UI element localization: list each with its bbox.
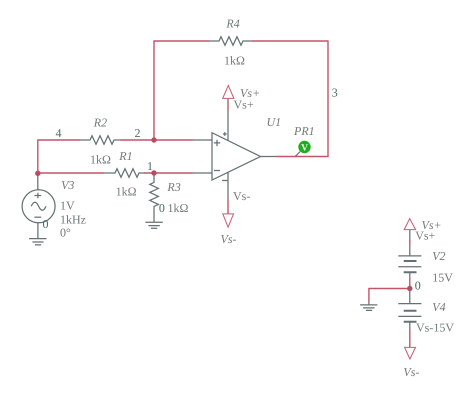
battery V4 plates bbox=[398, 304, 421, 317]
svg-text:PR1: PR1 bbox=[293, 124, 315, 138]
svg-text:15V: 15V bbox=[432, 271, 453, 285]
op-amp plus input marker bbox=[214, 140, 220, 146]
svg-text:Vs+: Vs+ bbox=[415, 228, 435, 242]
op-amp Vs- pin stub bbox=[227, 172, 229, 200]
op-amp Vs+ plus marker bbox=[223, 132, 227, 136]
svg-text:R3: R3 bbox=[166, 180, 180, 194]
svg-text:U1: U1 bbox=[267, 115, 282, 129]
svg-text:V4: V4 bbox=[432, 300, 445, 314]
resistor R3 bbox=[150, 174, 159, 223]
svg-text:1kHz: 1kHz bbox=[60, 212, 86, 226]
svg-text:1kΩ: 1kΩ bbox=[224, 53, 245, 67]
battery V4 top stub bbox=[409, 291, 411, 304]
wire node4 to R2 bbox=[38, 139, 80, 141]
power arrow Vs- right bbox=[405, 347, 416, 359]
svg-text:0: 0 bbox=[43, 217, 49, 231]
power arrow Vs- op-amp bbox=[223, 214, 234, 227]
wire R2 to op-amp plus input bbox=[120, 139, 193, 141]
wire op-amp Vs- red segment bbox=[227, 200, 229, 214]
power arrow Vs+ stub bbox=[409, 230, 411, 239]
wire node2 up to feedback loop bbox=[153, 41, 155, 140]
ground under V3 bbox=[29, 239, 46, 245]
wire left vertical node4 to node V3 bbox=[37, 139, 39, 173]
svg-text:R2: R2 bbox=[93, 115, 107, 129]
svg-text:Vs+: Vs+ bbox=[234, 98, 254, 112]
op-amp U1 input stub plus bbox=[193, 139, 213, 141]
wire Vs+ arrow to V2 bbox=[409, 239, 411, 246]
wire node 0 to ground branch bbox=[369, 288, 410, 290]
probe PR1 body bbox=[298, 141, 310, 153]
svg-text:1kΩ: 1kΩ bbox=[168, 201, 189, 215]
svg-text:R4: R4 bbox=[225, 17, 239, 31]
ground under R3 bbox=[145, 222, 162, 228]
V3 minus sign bbox=[34, 216, 41, 218]
ground right bbox=[360, 305, 377, 311]
svg-text:1V: 1V bbox=[60, 199, 75, 213]
op-amp Vs- minus marker bbox=[222, 180, 227, 182]
node dot 0 right bbox=[407, 286, 412, 291]
svg-text:0°: 0° bbox=[60, 225, 71, 239]
svg-text:1kΩ: 1kΩ bbox=[90, 153, 111, 167]
svg-text:4: 4 bbox=[56, 126, 62, 140]
op-amp U1 input stub minus bbox=[193, 172, 213, 174]
V3 plus sign bbox=[35, 193, 42, 199]
wire R4 to right corner bbox=[252, 40, 328, 42]
V3 bottom stub bbox=[37, 223, 39, 239]
wire op-amp output bbox=[276, 156, 329, 158]
resistor R2 bbox=[80, 136, 120, 145]
wire op-amp Vs+ red segment bbox=[227, 102, 229, 111]
svg-text:Vs-15V: Vs-15V bbox=[416, 321, 454, 335]
probe PR1 leader bbox=[295, 152, 300, 157]
op-amp U1 triangle bbox=[212, 133, 261, 180]
op-amp minus input marker bbox=[214, 170, 220, 172]
wire right vertical node 3 bbox=[327, 40, 329, 156]
source V3 pin stub top bbox=[37, 173, 39, 190]
power arrow Vs+ right bbox=[404, 219, 415, 230]
wire top left to R4 bbox=[153, 40, 209, 42]
wire R1 to node 1 to op-amp minus input bbox=[144, 172, 193, 174]
op-amp Vs+ arrow stub bbox=[227, 99, 229, 102]
svg-text:0: 0 bbox=[159, 201, 165, 215]
svg-text:1kΩ: 1kΩ bbox=[116, 185, 137, 199]
svg-text:Vs-: Vs- bbox=[221, 232, 237, 246]
battery V2 bottom stub bbox=[409, 272, 411, 277]
svg-text:Vs-: Vs- bbox=[233, 189, 250, 203]
svg-text:1: 1 bbox=[147, 159, 153, 173]
wire V2 bottom to node 0 bbox=[409, 277, 411, 288]
battery V2 top stub bbox=[409, 246, 411, 256]
node dot left junction bbox=[35, 171, 40, 176]
V3 sine symbol bbox=[31, 202, 46, 210]
node dot 1 bbox=[151, 170, 156, 175]
battery V2 plates bbox=[398, 256, 421, 267]
op-amp output stub bbox=[261, 156, 276, 158]
svg-text:V: V bbox=[301, 143, 308, 153]
ground stub right bbox=[368, 302, 370, 305]
svg-text:V3: V3 bbox=[61, 178, 74, 192]
op-amp Vs+ pin stub bbox=[227, 111, 229, 141]
battery V4 bottom stub bbox=[409, 322, 411, 330]
svg-text:Vs-: Vs- bbox=[403, 365, 419, 379]
svg-text:0: 0 bbox=[415, 279, 421, 293]
resistor R1 bbox=[104, 169, 145, 178]
node dot 2 bbox=[151, 137, 156, 142]
wire V4 to Vs- arrow bbox=[409, 330, 411, 348]
wire ground branch vertical bbox=[368, 288, 370, 302]
svg-text:V2: V2 bbox=[432, 249, 445, 263]
resistor R4 bbox=[209, 37, 252, 46]
svg-text:R1: R1 bbox=[118, 149, 132, 163]
power arrow Vs+ op-amp bbox=[223, 85, 234, 98]
source V3 circle bbox=[22, 190, 55, 223]
svg-text:2: 2 bbox=[135, 126, 141, 140]
svg-text:3: 3 bbox=[332, 85, 338, 99]
wire node 0 to V4 bbox=[409, 289, 411, 292]
wire V3 junction to R1 bbox=[38, 172, 104, 174]
